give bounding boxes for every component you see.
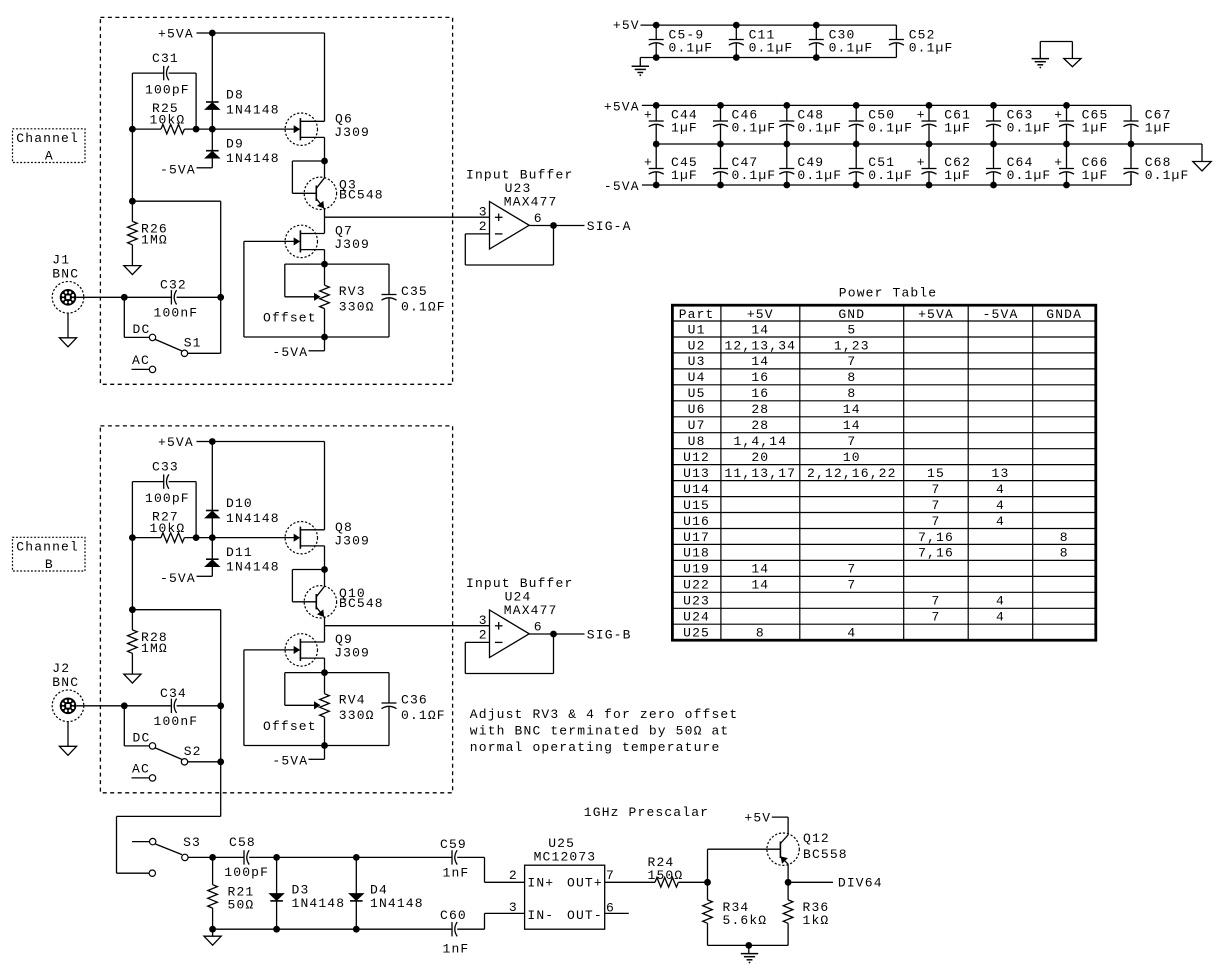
svg-text:7: 7 — [847, 434, 856, 449]
svg-text:7: 7 — [847, 562, 856, 577]
junction ground rail R21 — [209, 926, 216, 933]
ground GNDA (triangle symbol) — [1193, 162, 1211, 172]
wire op-amp output — [529, 225, 584, 227]
svg-text:normal operating temperature: normal operating temperature — [470, 740, 721, 755]
capacitor C34 100nF (coupling) — [154, 686, 199, 729]
svg-text:D9: D9 — [226, 136, 244, 151]
op-amp U23 MAX477 input buffer — [466, 167, 573, 249]
wire Q7 gate to -5VA rail — [244, 241, 296, 337]
svg-text:1nF: 1nF — [443, 942, 470, 957]
diode D10 1N4148 — [206, 442, 280, 538]
junction D4 top — [353, 854, 360, 861]
wire C59 to U25 IN+ — [457, 857, 524, 882]
ground below BNC — [59, 722, 76, 756]
wire buffer input — [325, 625, 490, 627]
switch S2 (AC/DC coupling) — [124, 706, 220, 765]
svg-text:U16: U16 — [683, 514, 710, 529]
svg-text:7,16: 7,16 — [918, 530, 954, 545]
svg-text:IN+: IN+ — [527, 875, 554, 890]
capacitor C52 0.1µF — [889, 28, 954, 58]
junction +5VA rail — [209, 30, 216, 37]
wire Q7 source node — [324, 250, 326, 265]
table row U6 — [688, 402, 861, 417]
table row U22 — [683, 578, 856, 593]
capacitor C32 100nF (coupling) — [154, 277, 199, 320]
svg-text:C33: C33 — [152, 460, 179, 475]
resistor R27 10k — [150, 509, 186, 542]
wire cap right lead — [177, 705, 221, 707]
power flag +5V at Q12 — [744, 810, 788, 835]
svg-text:1N4148: 1N4148 — [226, 151, 280, 166]
svg-text:1N4148: 1N4148 — [292, 896, 346, 911]
wire RV/C35 top rail — [285, 672, 389, 674]
svg-text:D11: D11 — [226, 545, 253, 560]
table row U18 — [683, 546, 1069, 561]
svg-text:-5VA: -5VA — [272, 753, 308, 768]
svg-text:1µF: 1µF — [1145, 120, 1172, 135]
wire R right lead to gate — [184, 128, 296, 130]
wire Q12 collector to DIV64 node — [787, 864, 789, 882]
svg-text:1µF: 1µF — [944, 168, 971, 183]
transistor Q7 (JFET J309) — [285, 224, 370, 258]
junction R26 top — [129, 198, 136, 205]
switch S1 (AC/DC coupling) — [124, 297, 220, 356]
resistor R36 1k — [783, 882, 829, 945]
svg-text:GNDA: GNDA — [1046, 307, 1082, 322]
svg-text:1,23: 1,23 — [834, 338, 870, 353]
svg-text:J309: J309 — [334, 237, 370, 252]
table row U3 — [688, 354, 857, 369]
junction GNDA mid rail — [990, 141, 997, 148]
wire GND rail — [640, 58, 896, 67]
junction diode node — [209, 534, 216, 541]
wire +5VA lead to rail — [197, 441, 213, 443]
svg-text:U4: U4 — [688, 370, 706, 385]
svg-text:14: 14 — [751, 322, 769, 337]
svg-text:+5VA: +5VA — [158, 26, 194, 41]
svg-text:J309: J309 — [334, 125, 370, 140]
svg-text:7: 7 — [847, 354, 856, 369]
svg-text:U13: U13 — [683, 466, 710, 481]
svg-text:BNC: BNC — [52, 267, 79, 282]
svg-text:S3: S3 — [183, 835, 201, 850]
svg-text:100pF: 100pF — [145, 83, 190, 98]
power table grid — [672, 305, 1095, 640]
capacitor C49 0.1µF — [779, 144, 842, 185]
svg-text:7: 7 — [932, 482, 941, 497]
svg-text:Part: Part — [679, 307, 715, 322]
junction bottom rail — [321, 334, 328, 341]
wire Q6 source to Q3 collector — [324, 546, 326, 586]
dashed enclosure box Channel A — [100, 17, 452, 384]
junction +5VA rail — [783, 102, 790, 109]
junction GND rail — [813, 54, 820, 61]
wire cap right lead — [177, 296, 221, 298]
svg-text:MAX477: MAX477 — [504, 603, 558, 618]
junction -5VA rail — [783, 182, 790, 189]
svg-text:C32: C32 — [160, 277, 187, 292]
table row U16 — [683, 514, 1005, 529]
svg-text:7,16: 7,16 — [918, 546, 954, 561]
svg-text:+5V: +5V — [747, 307, 774, 322]
plus input mark — [495, 214, 503, 222]
svg-text:0.1ΩF: 0.1ΩF — [401, 300, 446, 315]
table row U7 — [688, 418, 861, 433]
label box Channel B — [13, 537, 86, 572]
wire C60 to U25 IN- — [457, 913, 524, 929]
svg-text:12,13,34: 12,13,34 — [724, 338, 796, 353]
svg-text:0.1µF: 0.1µF — [868, 120, 913, 135]
capacitor C30 0.1µF — [809, 25, 874, 57]
table row U23 — [683, 594, 1005, 609]
capacitor C58 100pF — [224, 835, 269, 880]
transistor Q6 (JFET J309) — [285, 112, 370, 146]
capacitor C48 0.1µF — [779, 105, 842, 144]
svg-text:J309: J309 — [334, 533, 370, 548]
junction R left node — [129, 126, 136, 133]
svg-text:MC12073: MC12073 — [534, 849, 597, 864]
svg-text:14: 14 — [751, 354, 769, 369]
wire C33 right lead — [169, 482, 197, 538]
svg-text:A: A — [45, 149, 54, 164]
svg-text:-5VA: -5VA — [160, 571, 196, 586]
table row U1 — [688, 322, 857, 337]
svg-text:J2: J2 — [52, 661, 70, 676]
wire R right lead to gate — [184, 537, 296, 539]
wire Q7 source node — [324, 658, 326, 673]
junction R left node — [129, 534, 136, 541]
junction R26 top — [129, 606, 136, 613]
resistor R34 5.6k — [703, 882, 768, 945]
svg-text:10kΩ: 10kΩ — [150, 521, 186, 536]
wire +5VA lead to rail — [197, 32, 213, 34]
svg-text:10: 10 — [843, 450, 861, 465]
svg-text:U22: U22 — [683, 578, 710, 593]
svg-text:8: 8 — [847, 370, 856, 385]
svg-text:U8: U8 — [688, 434, 706, 449]
svg-text:OUT-: OUT- — [567, 908, 603, 923]
junction -5VA rail — [717, 182, 724, 189]
junction +5VA rail — [209, 438, 216, 445]
wire S3 pole to C58 — [188, 856, 244, 858]
capacitor C61 1µF — [917, 105, 971, 144]
junction output node — [550, 631, 557, 638]
table row U14 — [683, 482, 1005, 497]
svg-text:100pF: 100pF — [145, 491, 190, 506]
svg-text:1µF: 1µF — [1082, 168, 1109, 183]
svg-text:D8: D8 — [226, 87, 244, 102]
svg-text:2: 2 — [509, 868, 518, 883]
svg-text:7: 7 — [932, 514, 941, 529]
junction cap/R node — [193, 126, 200, 133]
junction GNDA mid rail — [1128, 141, 1135, 148]
IC U25 MC12073 prescaler — [525, 836, 605, 929]
capacitor C62 1µF — [917, 144, 971, 185]
svg-text:14: 14 — [843, 418, 861, 433]
capacitor C64 0.1µF — [986, 144, 1051, 185]
junction +5VA rail — [853, 102, 860, 109]
wire Q3 emitter to Q7 drain — [324, 209, 326, 233]
svg-text:U14: U14 — [683, 482, 710, 497]
svg-text:16: 16 — [751, 370, 769, 385]
svg-text:+: + — [917, 155, 926, 170]
svg-text:Power Table: Power Table — [839, 285, 937, 300]
svg-text:13: 13 — [992, 466, 1010, 481]
capacitor C51 0.1µF — [849, 144, 913, 185]
ground below BNC — [59, 313, 76, 347]
svg-text:C58: C58 — [229, 835, 256, 850]
svg-text:1nF: 1nF — [443, 865, 470, 880]
capacitor C60 1nF — [440, 908, 469, 957]
diode D3 1N4148 — [270, 857, 345, 929]
op-amp U24 MAX477 input buffer — [466, 576, 573, 658]
power flag -5VA at diode — [160, 162, 212, 177]
junction GNDA mid rail — [783, 141, 790, 148]
svg-text:4: 4 — [847, 626, 856, 641]
svg-text:+: + — [1054, 107, 1063, 122]
junction ground rail D4 — [353, 926, 360, 933]
svg-text:7: 7 — [847, 578, 856, 593]
svg-text:U17: U17 — [683, 530, 710, 545]
svg-text:-5VA: -5VA — [983, 307, 1019, 322]
junction RV top rail — [321, 261, 328, 268]
svg-text:U23: U23 — [683, 594, 710, 609]
junction Q collector node — [321, 566, 328, 573]
junction cap/R node — [193, 534, 200, 541]
svg-text:S1: S1 — [184, 335, 202, 350]
svg-text:1µF: 1µF — [944, 120, 971, 135]
wire Q6 source to Q3 collector — [324, 137, 326, 177]
wire prescalar ground rail — [213, 928, 452, 930]
junction DIV64 node — [785, 879, 792, 886]
svg-text:J1: J1 — [52, 252, 70, 267]
connector J1 BNC — [52, 252, 84, 313]
wire C58 to D3 node — [249, 856, 356, 858]
svg-text:+5V: +5V — [613, 18, 640, 33]
junction -5VA rail — [653, 182, 660, 189]
svg-text:C60: C60 — [440, 908, 467, 923]
svg-text:2: 2 — [479, 219, 488, 234]
diode D4 1N4148 — [350, 857, 424, 929]
table header row — [679, 307, 1082, 322]
minus input mark — [495, 233, 503, 235]
label box Channel A — [13, 129, 86, 164]
svg-text:14: 14 — [843, 402, 861, 417]
svg-text:4: 4 — [996, 514, 1005, 529]
svg-text:+: + — [644, 107, 653, 122]
wire BNC to coupling cap — [76, 705, 171, 707]
table row U17 — [683, 530, 1069, 545]
wire buffer input — [325, 216, 490, 218]
svg-text:S2: S2 — [184, 744, 202, 759]
svg-text:1N4148: 1N4148 — [226, 511, 280, 526]
svg-text:Channel: Channel — [16, 540, 79, 555]
svg-text:28: 28 — [751, 418, 769, 433]
wire OUT+ to R24 — [605, 881, 655, 883]
junction output node — [550, 222, 557, 229]
table row U13 — [683, 466, 1009, 481]
svg-text:8: 8 — [756, 626, 765, 641]
svg-text:BC548: BC548 — [339, 596, 384, 611]
junction BNC node — [121, 294, 128, 301]
svg-text:DIV64: DIV64 — [838, 875, 883, 890]
svg-text:2,12,16,22: 2,12,16,22 — [807, 466, 897, 481]
svg-text:0.1µF: 0.1µF — [797, 120, 842, 135]
wire wiper connection — [285, 673, 320, 709]
junction +5VA rail — [990, 102, 997, 109]
svg-text:U15: U15 — [683, 498, 710, 513]
svg-text:0.1µF: 0.1µF — [749, 41, 794, 56]
svg-text:8: 8 — [1060, 546, 1069, 561]
table row U12 — [683, 450, 861, 465]
note text: adjust RV3 & 4 — [470, 707, 739, 755]
svg-text:C34: C34 — [160, 686, 187, 701]
svg-text:3: 3 — [509, 900, 518, 915]
svg-text:+5V: +5V — [744, 810, 771, 825]
potentiometer RV4 330 ohm — [320, 673, 375, 746]
svg-text:4: 4 — [996, 610, 1005, 625]
svg-text:7: 7 — [606, 868, 615, 883]
svg-text:+5VA: +5VA — [158, 435, 194, 450]
svg-text:16: 16 — [751, 386, 769, 401]
svg-text:U6: U6 — [688, 402, 706, 417]
svg-text:4: 4 — [996, 498, 1005, 513]
svg-text:10kΩ: 10kΩ — [150, 112, 186, 127]
ground below 1M resistor — [124, 245, 141, 275]
svg-text:SIG-B: SIG-B — [587, 628, 632, 643]
resistor R21 50 ohm — [208, 857, 255, 929]
svg-text:Channel: Channel — [16, 131, 79, 146]
potentiometer RV3 330 ohm — [320, 264, 375, 337]
switch S3 input select — [132, 835, 201, 877]
svg-text:100nF: 100nF — [154, 305, 199, 320]
svg-text:C36: C36 — [401, 692, 428, 707]
capacitor C59 1nF — [440, 837, 469, 881]
svg-text:7: 7 — [932, 498, 941, 513]
capacitor C36 0.1 — [382, 673, 446, 746]
svg-text:OUT+: OUT+ — [567, 875, 603, 890]
junction ground rail D3 — [273, 926, 280, 933]
svg-text:1kΩ: 1kΩ — [803, 913, 830, 928]
svg-text:Offset: Offset — [263, 719, 317, 734]
svg-text:4: 4 — [996, 594, 1005, 609]
junction signal node — [217, 294, 224, 301]
svg-text:1N4148: 1N4148 — [370, 896, 424, 911]
svg-text:11,13,17: 11,13,17 — [724, 466, 796, 481]
wire emitter ground rail — [708, 944, 789, 946]
junction +5VA rail — [717, 102, 724, 109]
wire D4 to C59 — [356, 856, 452, 858]
capacitor C66 1µF — [1054, 144, 1108, 185]
svg-text:0.1µF: 0.1µF — [669, 41, 714, 56]
svg-text:15: 15 — [927, 466, 945, 481]
svg-text:1µF: 1µF — [1082, 120, 1109, 135]
plus input mark — [495, 622, 503, 630]
svg-text:1MΩ: 1MΩ — [141, 233, 168, 248]
svg-text:U18: U18 — [683, 546, 710, 561]
junction +5VA rail — [653, 102, 660, 109]
junction -5VA rail — [990, 182, 997, 189]
svg-text:0.1µF: 0.1µF — [732, 120, 777, 135]
svg-text:330Ω: 330Ω — [339, 708, 375, 723]
svg-text:28: 28 — [751, 402, 769, 417]
table row U19 — [683, 562, 856, 577]
capacitor C44 1µF — [644, 105, 698, 144]
svg-text:Q12: Q12 — [803, 831, 830, 846]
wire -5VA bottom rail — [244, 336, 389, 338]
junction +5VA rail — [1063, 102, 1070, 109]
capacitor C65 1µF — [1054, 105, 1108, 144]
svg-text:0.1µF: 0.1µF — [829, 41, 874, 56]
svg-text:-5VA: -5VA — [604, 179, 640, 194]
wire +5VA rail — [642, 105, 1131, 121]
svg-text:C59: C59 — [440, 837, 467, 852]
junction GND rail — [653, 54, 660, 61]
svg-text:2: 2 — [479, 628, 488, 643]
svg-text:RV4: RV4 — [339, 692, 366, 707]
svg-text:5.6kΩ: 5.6kΩ — [723, 913, 768, 928]
capacitor C35 0.1 — [382, 264, 446, 337]
wire R24 to base node — [678, 881, 707, 883]
svg-text:U2: U2 — [688, 338, 706, 353]
table row U4 — [688, 370, 857, 385]
ground below R21 — [204, 929, 221, 945]
wire DIV64 lead — [792, 881, 834, 883]
junction GNDA mid rail — [926, 141, 933, 148]
table row U2 — [688, 338, 870, 353]
ground below Q12 resistors (earth symbol) — [741, 945, 758, 963]
svg-text:U7: U7 — [688, 418, 706, 433]
svg-text:8: 8 — [847, 386, 856, 401]
wire -5VA rail — [642, 175, 1131, 185]
capacitor C47 0.1µF — [713, 144, 776, 185]
junction -5VA rail — [926, 182, 933, 189]
junction GNDA mid rail — [1063, 141, 1070, 148]
junction Q collector node — [321, 158, 328, 165]
wire OUT- stub pin 6 — [605, 912, 629, 914]
junction GNDA mid rail — [653, 141, 660, 148]
wire Q base loop — [292, 161, 324, 193]
table row U24 — [683, 610, 1005, 625]
svg-text:8: 8 — [1060, 530, 1069, 545]
junction D3 node — [273, 854, 280, 861]
transistor Q8 (JFET J309) — [285, 520, 370, 554]
resistor R26 1M — [128, 201, 168, 247]
ground below 1M resistor — [124, 653, 141, 683]
wire GND-GNDA tie — [1040, 42, 1072, 59]
junction R21 node — [209, 854, 216, 861]
svg-text:SIG-A: SIG-A — [587, 219, 632, 234]
capacitor C33 100pF (feedback cap) — [145, 460, 190, 507]
junction S2 output node — [217, 758, 224, 765]
svg-text:U1: U1 — [688, 322, 706, 337]
wire pin2 feedback — [465, 226, 553, 266]
svg-text:U24: U24 — [683, 610, 710, 625]
wire R left lead — [132, 537, 161, 539]
wire +5V rail — [641, 25, 897, 39]
table row U25 — [683, 626, 856, 641]
svg-text:BC548: BC548 — [339, 188, 384, 203]
wire Q3 emitter to Q7 drain — [324, 617, 326, 641]
svg-text:-5VA: -5VA — [272, 345, 308, 360]
svg-text:B: B — [45, 557, 54, 572]
svg-text:6: 6 — [534, 211, 543, 226]
svg-text:0.1µF: 0.1µF — [1007, 120, 1052, 135]
svg-text:with BNC terminated by 50Ω at: with BNC terminated by 50Ω at — [470, 724, 730, 739]
svg-text:Offset: Offset — [263, 310, 317, 325]
svg-text:AC: AC — [132, 761, 150, 776]
junction +5V rail — [813, 22, 820, 29]
